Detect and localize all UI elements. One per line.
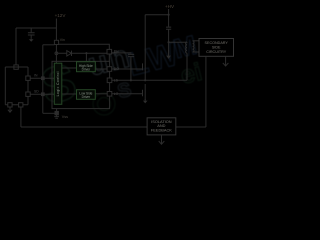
wire logic to high driver — [62, 67, 77, 69]
wire from P2 down to feedback bus — [20, 107, 22, 127]
pad P1 (10,105) — [8, 103, 12, 107]
ground symbol Vss — [54, 115, 59, 118]
capacitor C2 bootstrap — [128, 54, 134, 80]
junction dot (86.4,53.2) — [85, 52, 87, 54]
wire y14.7 — [145, 14, 168, 16]
ground arrow below C1 — [30, 38, 32, 40]
pad LS (109.5,80.3) — [107, 78, 112, 83]
pad Vss filled — [55, 111, 58, 114]
svg-text:Driver: Driver — [82, 68, 91, 72]
svg-text:+HV: +HV — [165, 4, 175, 9]
wire VS y80.3 — [112, 79, 187, 81]
watermark — [35, 52, 81, 116]
node circle (56.4,53.3) — [55, 52, 58, 55]
svg-text:DO: DO — [114, 67, 119, 71]
wire secondary bottom stub — [193, 51, 199, 53]
svg-text:CIRCUITRY: CIRCUITRY — [206, 50, 227, 54]
ground arrow under Q2 — [144, 99, 146, 101]
wire DO to Q1 gate — [112, 68, 143, 70]
label +HV wire — [168, 9, 170, 27]
wire +12V vertical rail — [55, 19, 57, 64]
svg-text:BH: BH — [114, 50, 119, 54]
box secondary side circuitry — [199, 39, 234, 57]
svg-text:LS: LS — [114, 79, 119, 83]
transistor Q1 high side — [143, 62, 146, 81]
wire +12V left rail y28 — [16, 27, 56, 29]
IC box U1 — [52, 61, 110, 108]
arrow stub output — [223, 56, 229, 66]
junction dot IN — [42, 77, 45, 80]
junction dot cap bottom — [130, 79, 132, 81]
wire x28 vertical — [27, 67, 29, 105]
wire feedback right vertical — [205, 56, 207, 127]
wire Vss stub to IC — [56, 109, 58, 112]
wire x42.8 vertical — [42, 45, 44, 114]
arrowhead C3 ground — [166, 56, 171, 59]
pad BH (109.3,51.7) — [107, 49, 112, 54]
transformer T1 secondary — [193, 41, 194, 52]
low side driver block — [77, 90, 96, 100]
svg-text:+12V: +12V — [55, 13, 67, 18]
diode D1 bootstrap — [58, 51, 107, 56]
junction dot VS fet leg — [144, 79, 146, 81]
ground arrow below P1 — [8, 107, 12, 112]
junction dot (168.6,42.2) — [168, 41, 170, 43]
wire Vin-left y44.8 — [43, 44, 55, 46]
wire logic to low driver — [62, 93, 77, 95]
watermark arcs — [93, 93, 115, 115]
wire HV bus drop x145.2 — [144, 15, 146, 62]
wire high driver to DO — [95, 68, 107, 70]
green inner boxes — [54, 62, 95, 105]
pad IN (28,78.2) — [26, 76, 30, 80]
capacitor C1 (decoupling at x31) — [28, 28, 35, 38]
wire LO to Q2 gate — [112, 93, 143, 95]
svg-text:IN: IN — [34, 74, 38, 78]
ground arrow under C3 — [168, 50, 170, 56]
junction dot SD — [42, 93, 45, 96]
box isolation and feedback — [147, 118, 176, 135]
wire BH to bootstrap cap — [112, 52, 131, 55]
arrowhead Q2 ground — [143, 101, 148, 104]
svg-text:SD: SD — [34, 90, 39, 94]
pad SD (28,94.2) — [26, 92, 30, 96]
svg-text:Vss: Vss — [62, 115, 68, 119]
pad P2 (20.8,105) — [19, 103, 23, 107]
wire Vss bottom — [43, 112, 55, 114]
wire Vin to VB top y44.3 — [59, 44, 110, 49]
svg-text:Vin: Vin — [60, 38, 65, 42]
junction dot (168.6,14.7) — [168, 14, 170, 16]
pad LO (109.5,93.8) — [107, 92, 112, 97]
wire SD y94.2 — [30, 93, 54, 95]
svg-text:Logic Control: Logic Control — [56, 71, 60, 96]
arrowheads — [29, 39, 171, 103]
wire low driver to LO — [95, 93, 107, 95]
bus feedback bottom — [21, 126, 206, 128]
transformer T1 primary — [186, 42, 187, 53]
wire bottom y104.8 — [5, 104, 28, 106]
transistor Q2 low side — [143, 84, 146, 100]
logic control block — [54, 63, 62, 104]
arrow stub below isolation box — [159, 135, 165, 144]
high side driver block — [77, 62, 96, 72]
wire left loop vertical x5.3 — [4, 67, 6, 105]
svg-text:SIDE: SIDE — [212, 45, 221, 49]
wire BH stub into IC — [108, 54, 110, 61]
wire y67 — [5, 66, 28, 68]
wire IN y78.2 — [30, 77, 54, 79]
wire secondary top stub — [193, 40, 199, 42]
wire left drop x16 — [15, 28, 17, 65]
svg-text:SECONDARY: SECONDARY — [205, 41, 229, 45]
wire primary bottom to VS — [186, 53, 188, 80]
svg-text:Driver: Driver — [82, 95, 91, 99]
arrowhead C1 ground — [29, 39, 34, 42]
node pad (16,67) — [14, 65, 18, 69]
pad Vin (56.4,42.4) — [54, 40, 58, 44]
wire drop into high driver — [85, 53, 87, 62]
pad DO (109.4,69) — [107, 67, 112, 72]
capacitor C3 — [166, 27, 171, 56]
svg-text:LO: LO — [114, 92, 119, 96]
svg-text:FEEDBACK: FEEDBACK — [151, 127, 172, 132]
wire cap mid to transformer — [169, 41, 187, 43]
